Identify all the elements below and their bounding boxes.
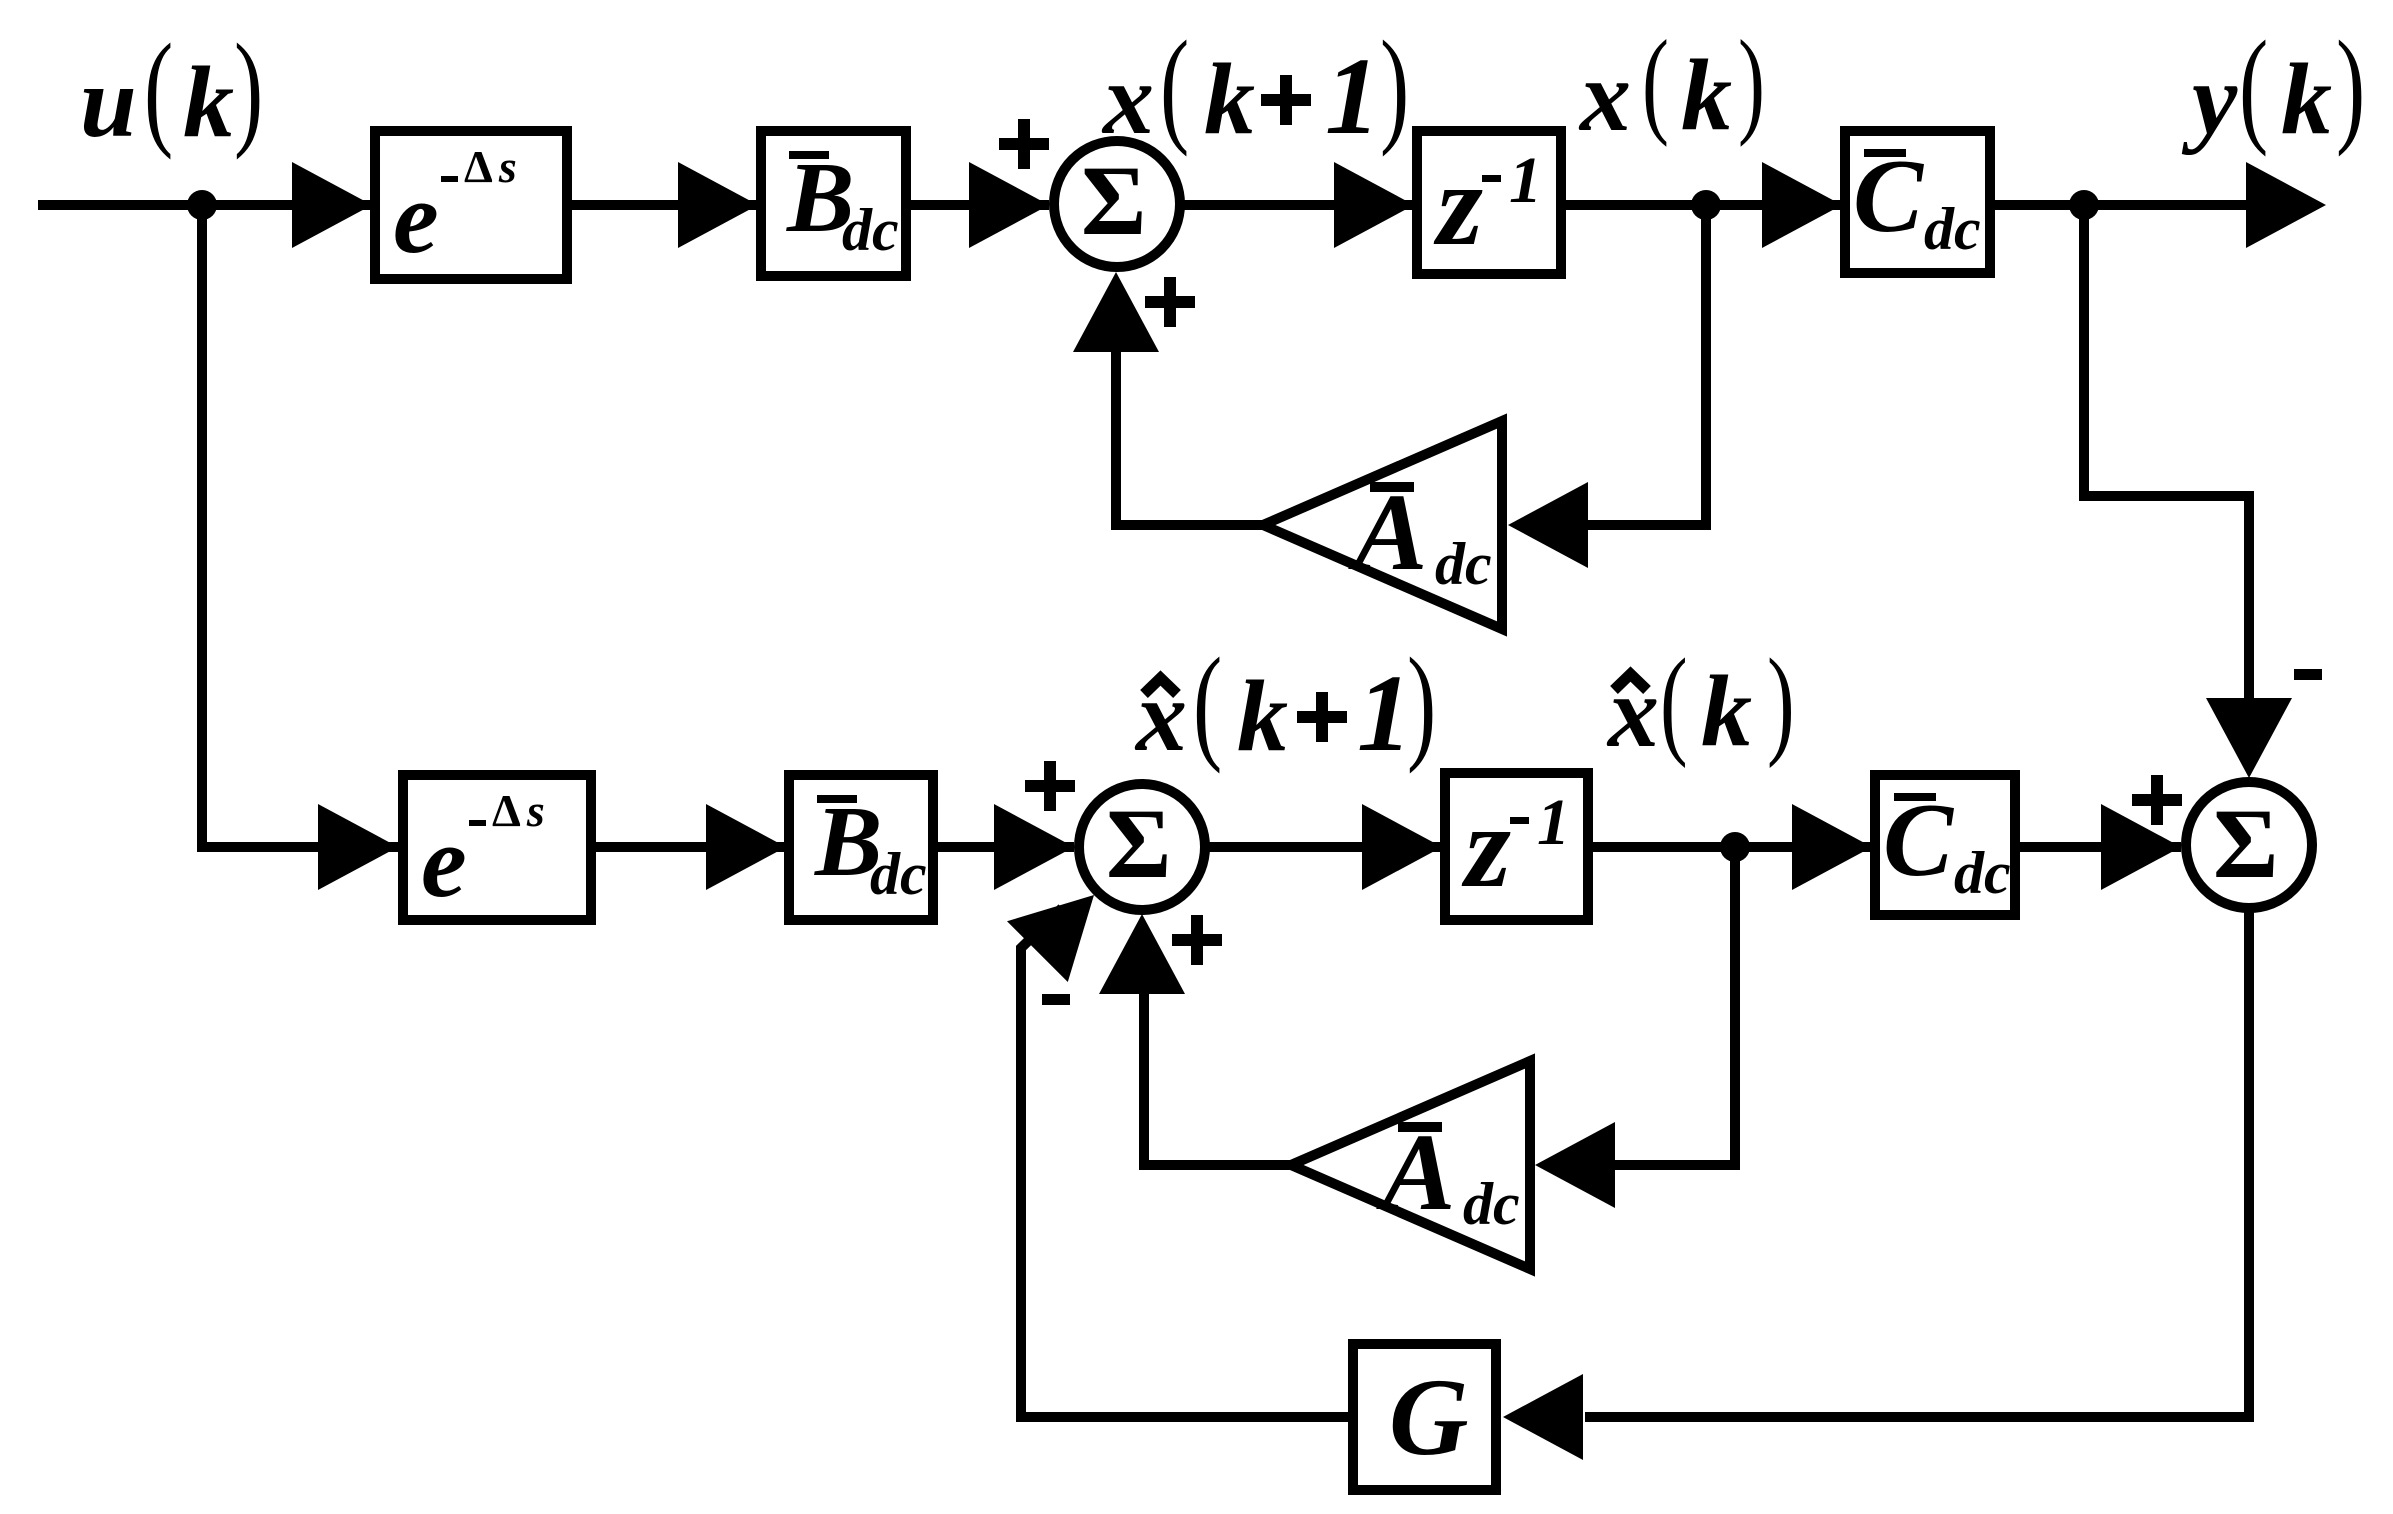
svg-text:k: k bbox=[183, 46, 234, 159]
arrowhead into sum3 bbox=[2101, 804, 2181, 890]
arrowhead into G bbox=[1503, 1374, 1583, 1460]
svg-text:1: 1 bbox=[1325, 35, 1380, 157]
svg-text:): ) bbox=[1767, 633, 1795, 769]
svg-text:dc: dc bbox=[1435, 531, 1492, 597]
arrowhead into sum1 bbox=[969, 162, 1049, 248]
label u(k) bbox=[80, 17, 263, 160]
arrowhead into Adc triangle (bottom) bbox=[1535, 1122, 1615, 1208]
node u(k) branch bbox=[187, 190, 217, 220]
svg-text:e: e bbox=[421, 805, 467, 919]
label xhat(k+1) bbox=[1134, 631, 1436, 774]
svg-text:k: k bbox=[1237, 660, 1288, 773]
svg-text:(: ( bbox=[1660, 633, 1688, 769]
svg-text:Δs: Δs bbox=[464, 141, 523, 192]
arrowhead into Bdc (bottom) bbox=[706, 804, 786, 890]
label xhat(k) bbox=[1606, 633, 1795, 769]
svg-text:k: k bbox=[1204, 43, 1255, 156]
svg-text:): ) bbox=[1407, 631, 1436, 774]
svg-text:k: k bbox=[1681, 39, 1732, 152]
wire Bdc to sum1 bbox=[911, 200, 1049, 210]
wire y(k) feedback down to sum3 bbox=[2084, 205, 2249, 700]
arrowhead into sum1 bottom bbox=[1073, 272, 1159, 352]
svg-text:C: C bbox=[1883, 781, 1955, 898]
svg-text:dc: dc bbox=[842, 197, 899, 263]
block Cdc (top) bbox=[1845, 131, 1990, 273]
svg-text:Δs: Δs bbox=[492, 785, 551, 836]
wire top feedback from x(k) node down and left bbox=[1588, 205, 1706, 525]
wire G output left and up to sum2 bbox=[1021, 908, 1348, 1417]
arrowhead into sum2 bbox=[994, 804, 1074, 890]
wire u(k) branch down to observer row bbox=[202, 205, 400, 847]
gain triangle Adc (top) bbox=[1263, 421, 1502, 629]
block z-1 (top) bbox=[1417, 131, 1561, 274]
svg-text:): ) bbox=[234, 17, 263, 160]
wire z-1 to Cdc (top) bbox=[1566, 200, 1842, 210]
svg-text:dc: dc bbox=[870, 841, 927, 907]
svg-text:): ) bbox=[2336, 14, 2365, 157]
block G bbox=[1353, 1344, 1496, 1490]
svg-text:(: ( bbox=[1193, 631, 1222, 774]
minus sign at sum3 top input bbox=[2294, 669, 2322, 680]
arrowhead into Cdc (bottom) bbox=[1792, 804, 1872, 890]
arrowhead into Adc triangle (top) bbox=[1508, 482, 1588, 568]
svg-text:u: u bbox=[80, 46, 137, 159]
svg-text:1: 1 bbox=[1537, 786, 1570, 859]
svg-text:Σ: Σ bbox=[1081, 145, 1146, 256]
wire bottom feedback from xhat(k) node down and left bbox=[1614, 847, 1735, 1165]
plus sign at sum1 left input bbox=[999, 119, 1049, 169]
block z-1 (bottom) bbox=[1445, 773, 1588, 920]
wire Adc apex to sum2 bottom bbox=[1144, 990, 1291, 1165]
svg-text:z: z bbox=[1461, 781, 1511, 912]
svg-text:x: x bbox=[1101, 43, 1154, 156]
wire sum2 to z-1 (bottom) bbox=[1205, 842, 1442, 852]
svg-text:A: A bbox=[1376, 1111, 1455, 1233]
svg-text:A: A bbox=[1348, 471, 1427, 593]
summing junction sum1 bbox=[1054, 141, 1180, 267]
svg-text:G: G bbox=[1389, 1356, 1468, 1478]
arrowhead into top delay block bbox=[292, 162, 372, 248]
plus sign at sum3 left input bbox=[2132, 775, 2182, 825]
svg-text:Σ: Σ bbox=[1106, 788, 1171, 899]
svg-text:): ) bbox=[1738, 16, 1765, 148]
arrowhead into bottom delay block bbox=[318, 804, 398, 890]
minus sign at sum2 diagonal input bbox=[1042, 994, 1070, 1005]
plus sign at sum1 bottom input bbox=[1145, 277, 1195, 327]
svg-text:e: e bbox=[393, 161, 439, 275]
wire Cdc to sum3 bbox=[2015, 842, 2181, 852]
wire u(k) input main line bbox=[38, 200, 372, 210]
node x(k) branch bbox=[1691, 190, 1721, 220]
svg-text:C: C bbox=[1853, 137, 1925, 254]
label x(k) bbox=[1578, 16, 1765, 153]
block Cdc (bottom) bbox=[1875, 775, 2015, 915]
arrowhead into sum2 bottom bbox=[1099, 914, 1185, 994]
plus sign at sum2 bottom input bbox=[1172, 915, 1222, 965]
svg-text:(: ( bbox=[1642, 16, 1669, 148]
svg-text:Σ: Σ bbox=[2213, 788, 2278, 899]
svg-text:(: ( bbox=[2239, 14, 2268, 157]
arrowhead diagonal into sum2 lower-left bbox=[1007, 895, 1094, 982]
arrowhead into z-1 (bottom) bbox=[1362, 804, 1442, 890]
arrowhead y(k) output bbox=[2246, 162, 2326, 248]
summing junction sum3 bbox=[2186, 782, 2312, 908]
block e^-Delta_s (bottom) bbox=[403, 775, 591, 920]
block e^-Delta_s (top) bbox=[375, 131, 567, 279]
svg-text:z: z bbox=[1433, 139, 1483, 270]
arrowhead into Bdc (top) bbox=[678, 162, 758, 248]
wire sum3 output down to G loop bbox=[1585, 908, 2249, 1417]
svg-text:k: k bbox=[1701, 655, 1752, 768]
plus sign at sum2 left input bbox=[1025, 761, 1075, 811]
svg-text:(: ( bbox=[144, 17, 173, 160]
svg-text:dc: dc bbox=[1463, 1171, 1520, 1237]
svg-text:1: 1 bbox=[1509, 144, 1542, 217]
wire z-1 to Cdc (bottom) bbox=[1593, 842, 1872, 852]
gain triangle Adc (bottom) bbox=[1291, 1061, 1530, 1269]
wire e to Bdc (bottom) bbox=[596, 842, 786, 852]
wire Adc apex to sum1 bottom bbox=[1116, 350, 1263, 525]
arrowhead into sum3 top bbox=[2206, 698, 2292, 778]
label y(k) bbox=[2181, 14, 2365, 157]
svg-text:dc: dc bbox=[1924, 196, 1981, 262]
svg-text:dc: dc bbox=[1954, 840, 2011, 906]
svg-text:1: 1 bbox=[1357, 652, 1412, 774]
arrowhead into Cdc (top) bbox=[1762, 162, 1842, 248]
arrowhead into z-1 (top) bbox=[1334, 162, 1414, 248]
svg-text:k: k bbox=[2281, 43, 2332, 156]
wire e to Bdc (top) bbox=[572, 200, 758, 210]
block Bdc (top) bbox=[761, 131, 906, 276]
node y(k) branch bbox=[2069, 190, 2099, 220]
svg-text:x: x bbox=[1578, 40, 1631, 153]
summing junction sum2 bbox=[1079, 784, 1205, 910]
block Bdc (bottom) bbox=[789, 775, 933, 920]
svg-text:(: ( bbox=[1160, 14, 1189, 157]
node xhat(k) branch bbox=[1720, 832, 1750, 862]
wire sum1 to z-1 (top) bbox=[1180, 200, 1414, 210]
wire Bdc to sum2 bbox=[938, 842, 1074, 852]
wire Cdc to y(k) output bbox=[1995, 200, 2290, 210]
svg-text:): ) bbox=[1380, 14, 1409, 157]
label x(k+1) bbox=[1101, 14, 1409, 157]
